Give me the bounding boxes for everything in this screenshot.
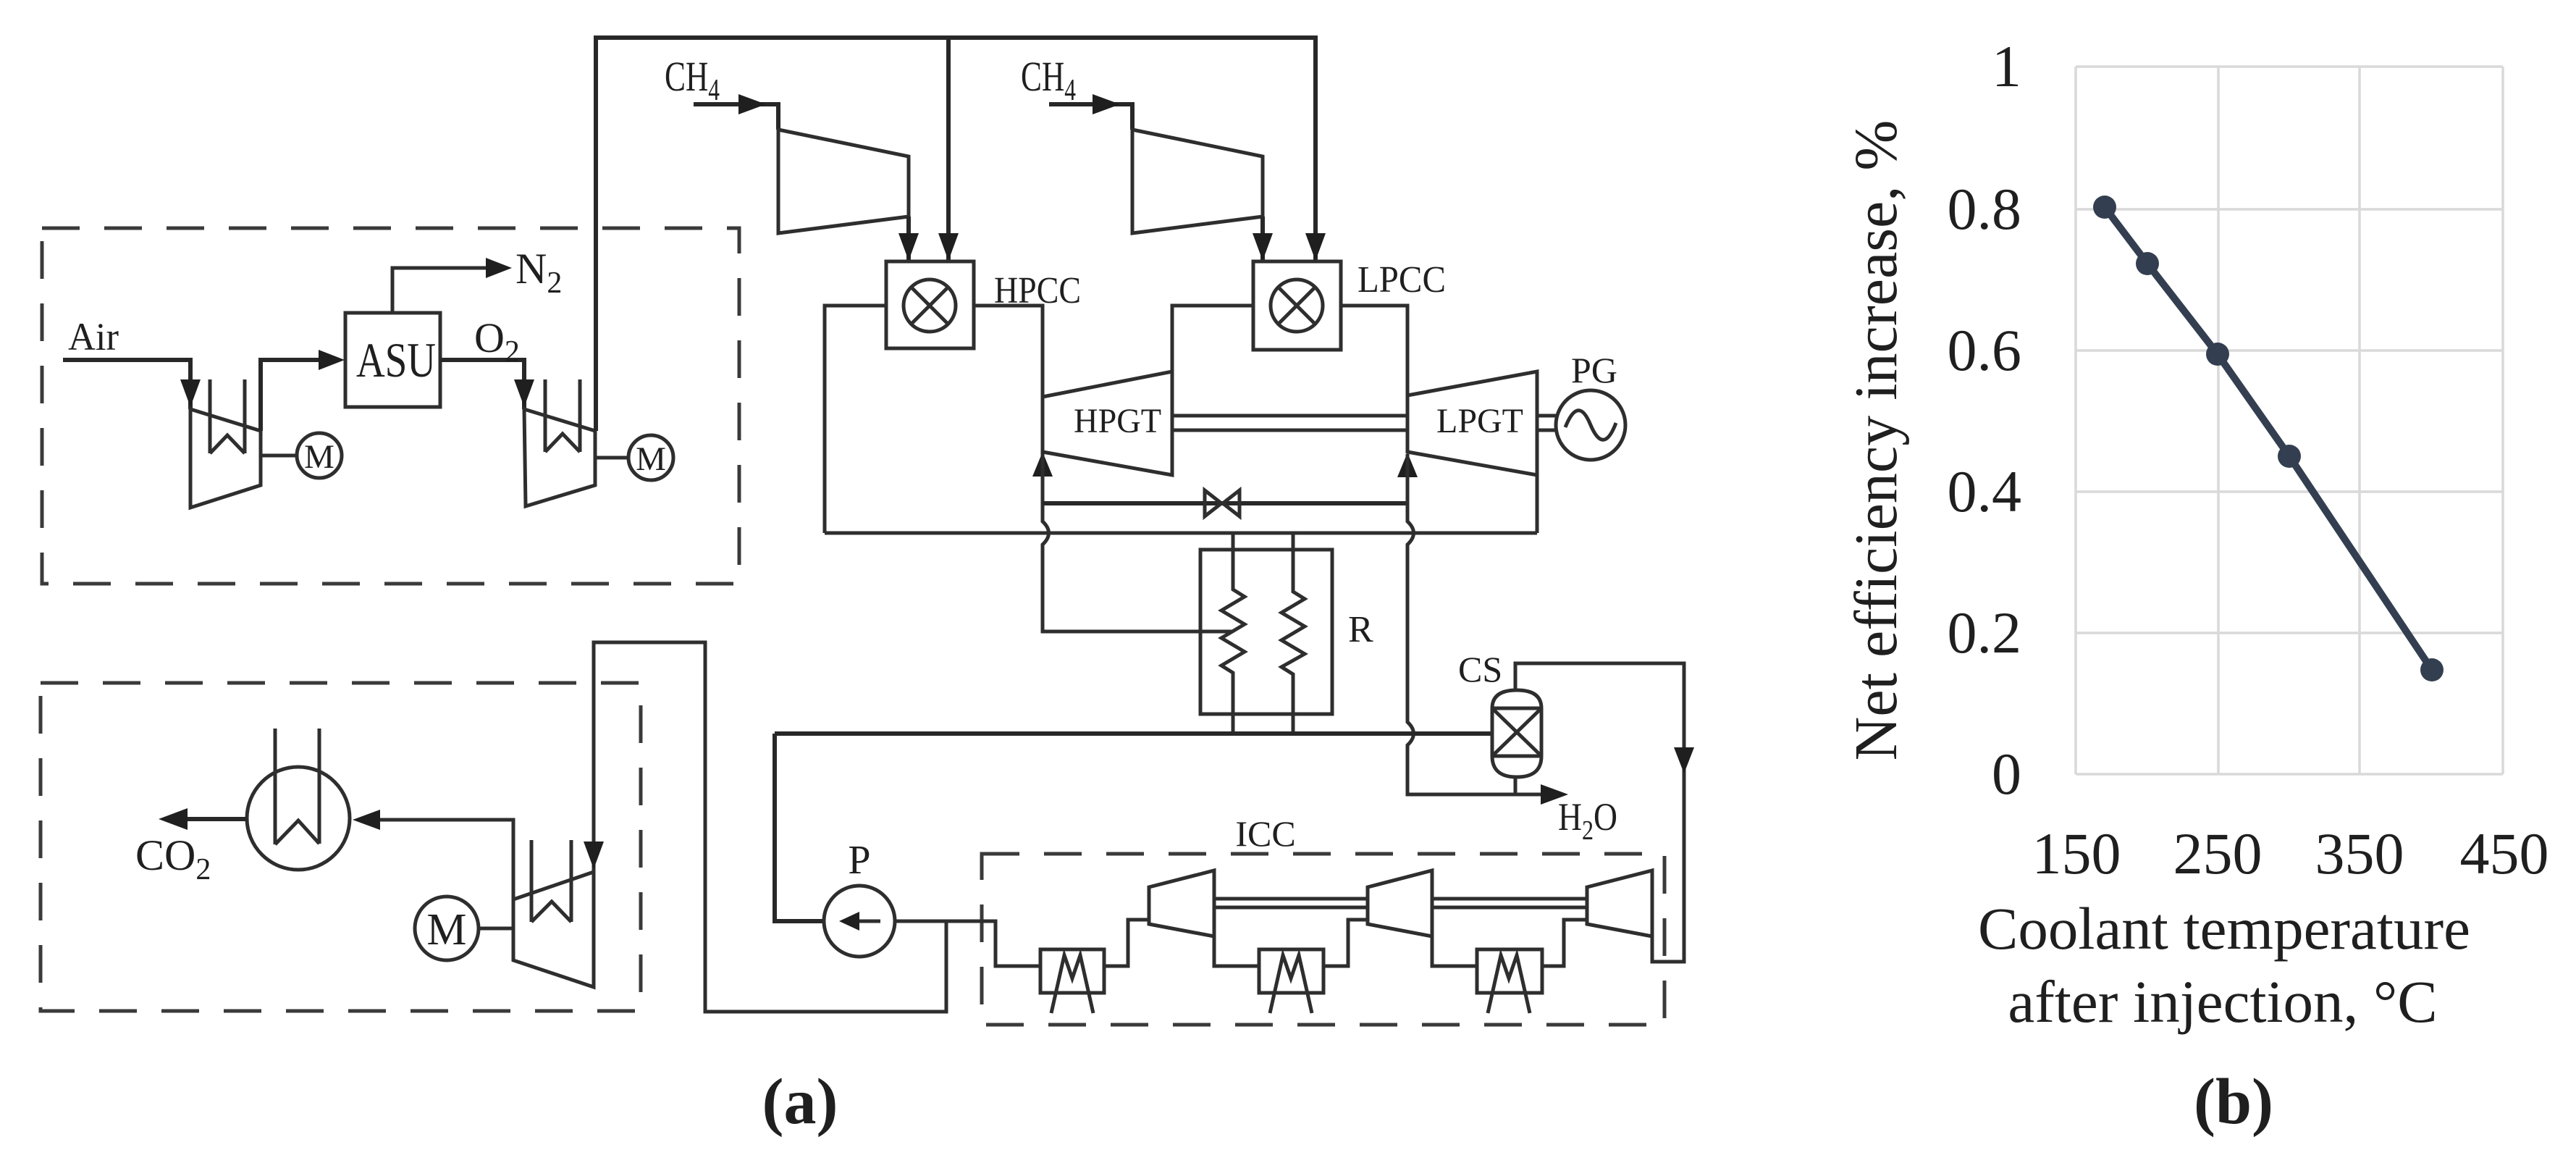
svg-text:ICC: ICC [1235,813,1295,854]
arrow O2 into HPCC [938,233,959,261]
arrow H2O outlet [1541,784,1568,805]
compressor fuel 1 [778,130,909,233]
wire HPGT outlet to LPCC [1172,306,1253,475]
turbine LPGT [1407,372,1537,475]
svg-text:0.6: 0.6 [1948,317,2022,383]
shaft HPGT-LPGT [1172,416,1407,430]
motor M air compressor [297,433,342,478]
wire N2 outlet [392,268,488,313]
svg-text:0.2: 0.2 [1948,600,2022,666]
wire HPGT coolant riser (hops recycle line) [1043,453,1233,631]
svg-text:(a): (a) [762,1066,838,1138]
compressor ICC C [1587,870,1652,936]
svg-text:0: 0 [1992,741,2021,807]
svg-text:0.4: 0.4 [1948,458,2022,524]
chart gridlines [2076,67,2503,774]
wire fuel 2 to LPCC [1260,217,1265,261]
wire CO2 compressor to cooler [376,820,513,899]
wire fuel 1 to HPCC [906,217,911,261]
compressor fuel 2 [1132,130,1263,233]
dashed box CO2 capture unit [41,683,641,1011]
arrow fuel into HPCC [898,233,919,261]
arrow gas down to ICC [1674,747,1694,773]
valve [1205,490,1239,516]
svg-text:after injection, °C: after injection, °C [2008,968,2437,1035]
svg-text:CS: CS [1458,649,1502,689]
svg-text:HPGT: HPGT [1074,402,1161,440]
svg-text:M: M [426,905,466,954]
shaft LPGT-PG [1537,416,1557,430]
arrow coolant into LPGT [1397,453,1418,477]
combustor HPCC [886,261,974,348]
wire CH4 fuel 1 [694,104,778,130]
svg-text:LPGT: LPGT [1436,402,1523,440]
svg-text:LPCC: LPCC [1358,259,1446,301]
svg-text:Air: Air [68,315,119,358]
svg-text:150: 150 [2032,820,2121,886]
arrow into cooler [353,810,380,830]
svg-text:R: R [1348,609,1373,650]
shaft ICC B-C [1432,899,1587,907]
compressor air (trapezoid with cooling) [190,379,261,508]
svg-text:450: 450 [2460,820,2549,886]
svg-text:PG: PG [1571,350,1617,390]
svg-text:M: M [636,440,666,478]
wire intercooler 2 to ICC compressor B [1323,920,1368,966]
wire O2 to compressor [440,360,524,409]
intercooler 2 [1259,949,1323,1013]
wire O2 header (compressor discharge to combustors) [596,38,1316,431]
dashed box ASU unit [42,228,739,584]
svg-text:0.8: 0.8 [1948,176,2022,242]
wire Air inlet [63,360,190,409]
svg-text:250: 250 [2173,820,2263,886]
compressor CO2 (mirrored with cooling) [513,840,594,987]
wire CS top gas to ICC [1515,663,1684,962]
recuperator R box [1200,550,1332,714]
arrow N2 [486,258,512,278]
wire HPCC outlet to HPGT [974,306,1043,397]
wire CO2 product out [186,817,247,821]
wire motor link O2 compressor [595,456,628,460]
wire ICC A to intercooler 2 [1214,936,1259,966]
ASU box [345,313,440,407]
compressor ICC B [1368,870,1432,936]
wire LPGT downcomer to water drain (hops two lines) [1407,454,1541,794]
chart data series [2093,196,2444,681]
arrow O2 into LPCC [1305,233,1326,261]
svg-text:P: P [848,838,870,883]
wire coolant header with valve [1043,501,1407,505]
combustor LPCC [1253,261,1341,350]
wire motor link air compressor [261,454,297,458]
wire ICC B to intercooler 3 [1432,936,1477,966]
x axis tick labels [2032,820,2549,886]
arrow CH4 fuel 2 [1093,94,1120,114]
wire recycle main line (HPCC to LPGT outlet) [825,475,1537,533]
separator CS vessel [1492,690,1541,777]
recuperator coil right [1281,533,1305,734]
wire intercooler 3 to ICC compressor C [1542,920,1587,966]
arrow into O2 compressor [514,379,534,407]
shaft ICC A-B [1214,899,1368,907]
wire CS bottom stub [1514,777,1518,794]
svg-text:1: 1 [1992,33,2021,99]
y axis tick labels [1948,33,2022,807]
arrow fuel into LPCC [1253,233,1273,261]
dashed box ICC intercooled compressor [982,854,1664,1025]
wire motor link CO2 compressor [479,927,513,931]
turbine HPGT [1043,372,1172,475]
wire HPCC left recycle loop [825,306,886,533]
svg-text:(b): (b) [2194,1066,2273,1138]
arrow CO2 out [159,808,188,830]
motor M O2 compressor [628,435,673,480]
intercooler 1 [1040,949,1104,1013]
compressor ICC A [1149,870,1214,936]
motor M CO2 compressor [415,897,479,960]
arrow into CO2 compressor [584,841,604,869]
arrow into air compressor [180,379,201,407]
recuperator coil left [1221,533,1245,734]
wire pump suction from ICC [895,921,1040,966]
cooler circle [247,729,350,870]
wire O2 branch to HPCC [946,38,951,261]
svg-text:Net efficiency increase, %: Net efficiency increase, % [1843,120,1910,761]
wire CO2 branch line [594,642,946,1012]
svg-text:ASU: ASU [356,332,436,387]
pump P [824,886,895,957]
arrow into ASU [319,350,345,370]
wire CH4 fuel 2 [1049,104,1132,130]
svg-text:M: M [304,438,334,476]
wire pump discharge header to CS [775,734,1492,921]
svg-text:Coolant temperature: Coolant temperature [1978,895,2470,962]
wire air compressor to ASU [261,360,323,431]
arrow CH4 fuel 1 [738,94,766,114]
wire LPCC outlet to LPGT [1341,306,1407,395]
wire intercooler 1 to ICC compressor A [1104,920,1149,966]
svg-text:350: 350 [2315,820,2404,886]
compressor O2 (trapezoid with cooling) [524,379,595,506]
generator PG [1556,390,1625,460]
intercooler 3 [1477,949,1542,1013]
arrow coolant into HPGT [1032,452,1053,477]
